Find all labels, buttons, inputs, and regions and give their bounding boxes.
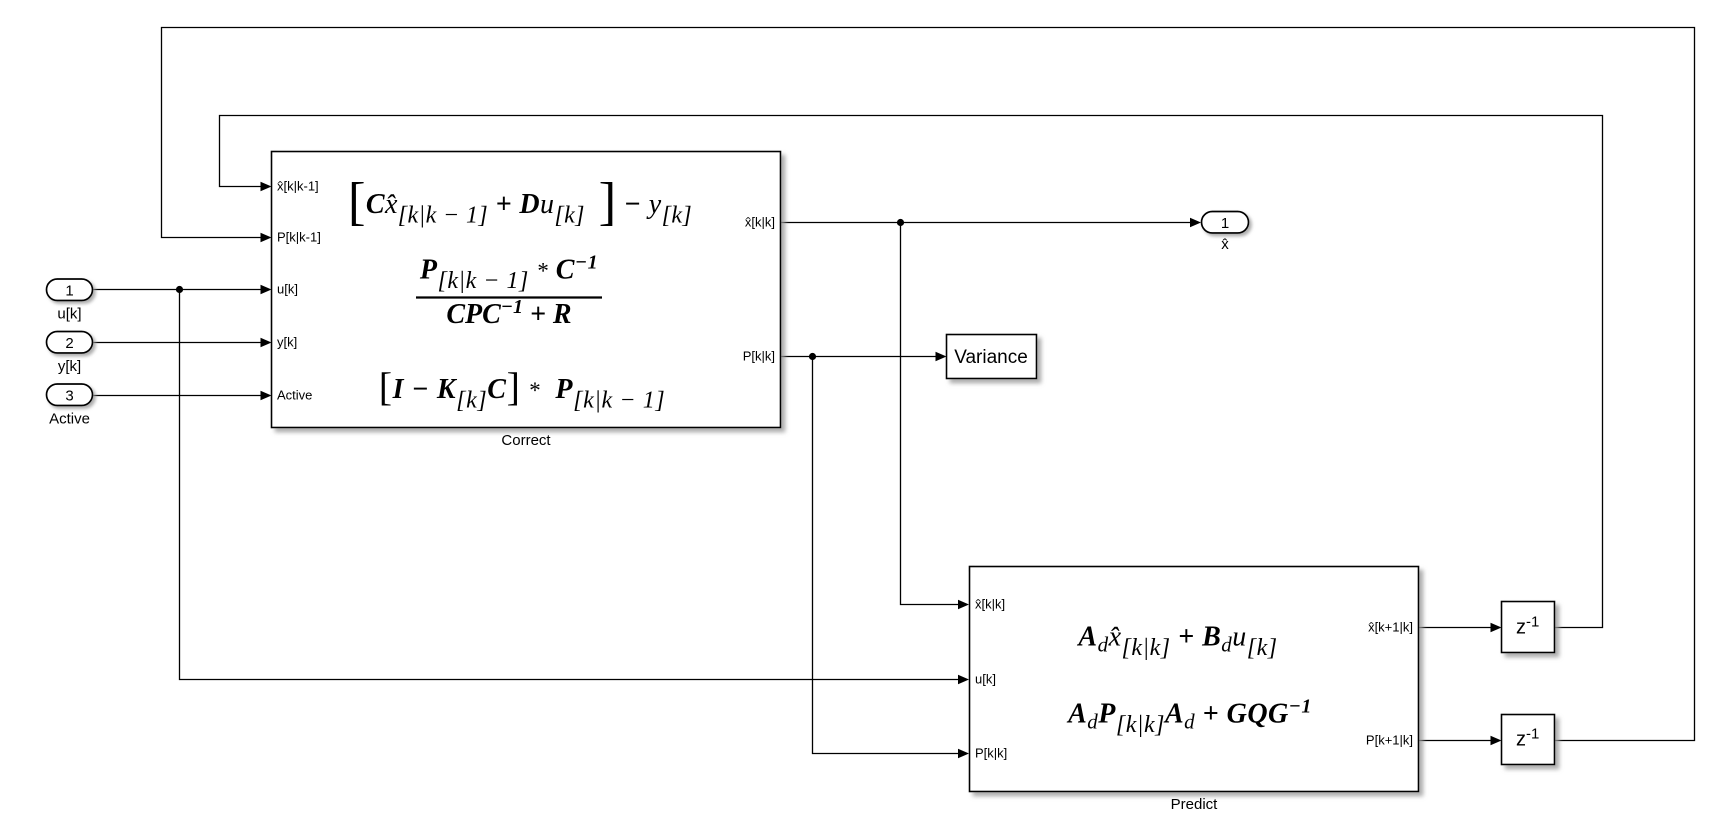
svg-text:P[k|k-1]: P[k|k-1] (277, 230, 321, 245)
svg-text:Variance: Variance (954, 347, 1028, 368)
svg-text:1: 1 (1221, 215, 1229, 232)
Correct equation fraction numerator (419, 252, 598, 295)
wire: y[k] from Inport 2 to Correct (93, 342, 262, 344)
svg-text:Active: Active (49, 411, 90, 428)
wire: u[k] branch down to Predict u[k] (180, 290, 960, 680)
svg-text:Predict: Predict (1171, 796, 1219, 813)
svg-text:P[k|k]: P[k|k] (975, 746, 1007, 761)
block: Correct subsystem (272, 152, 781, 428)
block: Variance terminator (947, 335, 1037, 379)
inport 1 (47, 279, 93, 301)
svg-text:y[k]: y[k] (277, 335, 297, 350)
svg-text:x̂[k|k-1]: x̂[k|k-1] (277, 179, 319, 194)
wire: P[k|k] branch down to Predict P[k|k] (813, 357, 960, 754)
svg-text:Active: Active (277, 388, 312, 403)
wire: Active from Inport 3 to Correct (93, 395, 262, 397)
arrowhead into Delay1 (1491, 736, 1502, 746)
wire: u[k] from Inport 1 to Correct (93, 289, 262, 291)
Correct equation line 1 (348, 173, 692, 231)
wire: xhat[k+1|k] from Predict to Delay (1419, 627, 1491, 629)
svg-text:x̂[k+1|k]: x̂[k+1|k] (1368, 620, 1413, 635)
svg-text:Correct: Correct (501, 432, 551, 449)
Predict equation line 2 (1066, 696, 1312, 739)
Correct equation line 3 (379, 364, 666, 414)
svg-text:2: 2 (65, 335, 73, 352)
arrowhead into Correct Active (261, 391, 272, 401)
inport 2 (47, 332, 93, 354)
arrowhead into Correct u[k] (261, 285, 272, 295)
outport 1 (1202, 212, 1249, 234)
block: Delay1 (z^-1) bottom (1502, 715, 1555, 765)
svg-text:u[k]: u[k] (57, 306, 81, 323)
wire: xhat[k|k] from Correct to Outport 1 (781, 222, 1191, 224)
arrowhead into Predict P[k|k] (958, 749, 969, 759)
arrowhead into Correct xhat[k|k-1] (261, 182, 272, 192)
arrowhead into Variance (936, 352, 947, 362)
wire: xhat[k|k] branch down to Predict xhat[k|k] (901, 223, 960, 605)
arrowhead into Outport 1 (1190, 218, 1201, 228)
arrowhead into Correct y[k] (261, 338, 272, 348)
junction: P[k|k] branch (809, 353, 816, 360)
svg-text:y[k]: y[k] (58, 358, 81, 375)
wire: P[k+1|k] from Predict to Delay1 (1419, 740, 1491, 742)
svg-text:u[k]: u[k] (277, 282, 298, 297)
arrowhead into Delay (1491, 623, 1502, 633)
svg-text:x̂[k|k]: x̂[k|k] (745, 215, 775, 230)
inport 3 (47, 384, 93, 406)
arrowhead into Correct P[k|k-1] (261, 233, 272, 243)
svg-text:3: 3 (65, 388, 73, 405)
Predict equation line 1 (1076, 622, 1277, 662)
arrowhead into Predict u[k] (958, 675, 969, 685)
wire: feedback xhat (inner loop) from Delay output up over the top into xhat[k|k-1] (220, 116, 1603, 628)
arrowhead into Predict xhat[k|k] (958, 600, 969, 610)
block: Delay (z^-1) top (1502, 602, 1555, 653)
Correct equation fraction bar (416, 296, 602, 298)
block: Predict subsystem (970, 567, 1419, 792)
junction: xhat[k|k] branch (897, 219, 904, 226)
svg-text:1: 1 (65, 283, 73, 300)
wire: feedback P (outer loop) from Delay1 output up over the top into P[k|k-1] (162, 28, 1695, 741)
svg-text:P[k+1|k]: P[k+1|k] (1366, 733, 1413, 748)
wire: P[k|k] from Correct to Variance (781, 356, 936, 358)
svg-text:x̂: x̂ (1221, 236, 1229, 253)
svg-text:P[k|k]: P[k|k] (743, 349, 775, 364)
Correct equation fraction denominator (446, 296, 571, 330)
svg-text:x̂[k|k]: x̂[k|k] (975, 597, 1005, 612)
junction: u[k] branch (176, 286, 183, 293)
svg-text:u[k]: u[k] (975, 672, 996, 687)
